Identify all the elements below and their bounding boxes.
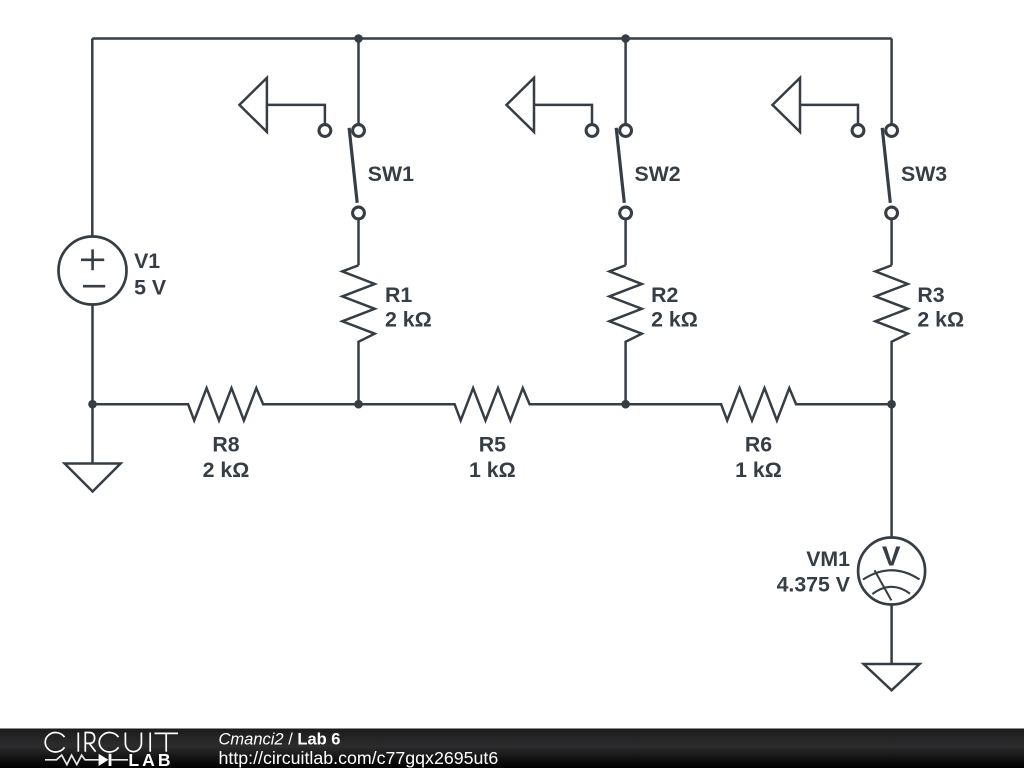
switch SW2 — [507, 78, 632, 219]
wire SW3 to R3 — [890, 218, 893, 265]
svg-text:LAB: LAB — [128, 750, 173, 768]
resistor R2 — [609, 265, 641, 404]
wire SW1 to R1 — [357, 218, 360, 265]
node dot R2 bottom — [621, 400, 630, 409]
svg-text:R6: R6 — [745, 433, 772, 457]
svg-text:R3: R3 — [917, 283, 944, 307]
svg-text:SW1: SW1 — [368, 162, 414, 186]
wire VM1 to ground — [890, 605, 893, 665]
svg-text:R1: R1 — [385, 283, 412, 307]
svg-text:V: V — [882, 540, 901, 571]
resistor R5 with leads — [359, 388, 626, 420]
resistor R6 with leads — [626, 388, 892, 420]
node dot top rail SW1 — [354, 34, 363, 43]
resistor R8 with leads — [93, 388, 359, 420]
wire SW2 top — [624, 39, 627, 126]
logo diode cathode bar — [109, 754, 112, 766]
voltage source V1 — [59, 237, 127, 305]
svg-text:R5: R5 — [479, 433, 506, 457]
svg-text:R8: R8 — [212, 433, 239, 457]
svg-text:http://circuitlab.com/c77gqx26: http://circuitlab.com/c77gqx2695ut6 — [219, 748, 499, 768]
node dot top rail SW2 — [621, 34, 630, 43]
wire SW3 top — [890, 39, 893, 126]
resistor R1 — [342, 265, 374, 404]
wire SW1 top — [357, 39, 360, 126]
ground (V1) — [65, 464, 121, 492]
svg-text:2 kΩ: 2 kΩ — [917, 307, 964, 331]
svg-text:V1: V1 — [134, 249, 160, 273]
svg-text:2 kΩ: 2 kΩ — [651, 307, 698, 331]
logo diode — [99, 754, 109, 766]
svg-text:SW3: SW3 — [901, 162, 947, 186]
switch SW3 — [773, 78, 898, 219]
node dot R1 bottom — [354, 400, 363, 409]
svg-text:5 V: 5 V — [134, 275, 167, 299]
svg-text:Cmanci2 / Lab 6: Cmanci2 / Lab 6 — [219, 731, 341, 749]
svg-text:R2: R2 — [651, 283, 678, 307]
voltmeter VM1 — [858, 538, 925, 605]
wire SW2 to R2 — [624, 218, 627, 265]
wire R6 node to voltmeter — [890, 404, 893, 537]
wire top rail — [92, 37, 891, 40]
svg-text:4.375 V: 4.375 V — [777, 573, 851, 597]
wire V1 top — [91, 39, 94, 237]
svg-text:1 kΩ: 1 kΩ — [735, 458, 782, 482]
logo diode wire to LAB — [111, 759, 128, 761]
node dot R6 right — [887, 400, 896, 409]
resistor R3 — [875, 265, 907, 404]
wire V1 bottom to ground node — [91, 305, 94, 464]
svg-text:VM1: VM1 — [806, 547, 850, 571]
logo resistor zigzag wire — [45, 755, 99, 765]
ground (VM1) — [864, 664, 920, 690]
footer bar — [0, 729, 1024, 768]
svg-text:2 kΩ: 2 kΩ — [203, 458, 250, 482]
svg-text:2 kΩ: 2 kΩ — [385, 307, 432, 331]
svg-text:SW2: SW2 — [635, 162, 681, 186]
logo CIRCUIT letters — [45, 733, 178, 752]
node dot V1 bottom — [88, 400, 97, 409]
svg-text:1 kΩ: 1 kΩ — [469, 458, 516, 482]
switch SW1 — [239, 78, 364, 219]
